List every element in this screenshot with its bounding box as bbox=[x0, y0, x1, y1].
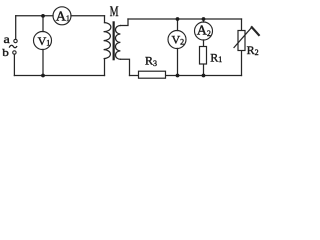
wire A2 to R1 lead bbox=[203, 40, 205, 47]
wire transformer primary top lead bbox=[104, 16, 106, 23]
wire right rail lower bbox=[241, 51, 243, 76]
wire V2 branch bottom bbox=[177, 49, 179, 76]
transformer M secondary coil bbox=[115, 26, 120, 60]
wire left rail upper bbox=[15, 16, 17, 39]
rheostat R2 box bbox=[238, 31, 245, 51]
node dot V1 top junction bbox=[41, 14, 45, 18]
wire secondary bottom rail left of R3 bbox=[130, 75, 139, 77]
terminal b circle bbox=[13, 51, 16, 54]
node dot R1 bottom junction bbox=[202, 74, 206, 78]
rheostat R2 wiper arrow barb bbox=[252, 27, 259, 35]
node dot V2 bottom junction bbox=[176, 74, 180, 78]
wire R1 bottom lead bbox=[203, 64, 205, 76]
wire transformer secondary top stub bbox=[121, 19, 129, 26]
wire V2 branch top bbox=[177, 19, 179, 31]
wire A2 branch top bbox=[203, 19, 205, 22]
rheostat R2 wiper arrow shaft bbox=[234, 27, 252, 48]
node dot V2 top junction bbox=[176, 17, 180, 21]
wire transformer primary bottom lead bbox=[104, 59, 106, 76]
wire transformer secondary bottom stub bbox=[121, 59, 130, 75]
resistor R3 box bbox=[139, 71, 166, 78]
transformer core bar bbox=[113, 21, 115, 60]
node dot A2 top junction bbox=[202, 17, 206, 21]
wire right rail upper bbox=[241, 19, 243, 31]
svg-text:a: a bbox=[4, 32, 11, 46]
wire left rail lower bbox=[13, 54, 15, 75]
ammeter A1 circle bbox=[53, 7, 71, 25]
resistor R1 box bbox=[200, 47, 207, 65]
wire V1 branch top bbox=[42, 16, 44, 32]
svg-text:M: M bbox=[110, 4, 119, 20]
AC tilde between terminals bbox=[9, 45, 17, 47]
wire primary bottom rail bbox=[14, 75, 104, 77]
svg-text:b: b bbox=[2, 47, 9, 59]
voltmeter V1 circle bbox=[34, 32, 52, 50]
wire V1 branch bottom bbox=[42, 50, 44, 76]
transformer M primary coil bbox=[104, 23, 111, 59]
ammeter A2 circle bbox=[195, 22, 213, 40]
terminal a circle bbox=[14, 39, 17, 42]
wire primary top rail left segment bbox=[16, 15, 53, 17]
wire secondary top rail bbox=[128, 18, 242, 20]
wire secondary bottom rail right of R3 bbox=[166, 75, 242, 77]
voltmeter V2 circle bbox=[168, 31, 186, 49]
wire primary top rail right segment bbox=[71, 15, 105, 17]
node dot V1 bottom junction bbox=[41, 74, 45, 78]
